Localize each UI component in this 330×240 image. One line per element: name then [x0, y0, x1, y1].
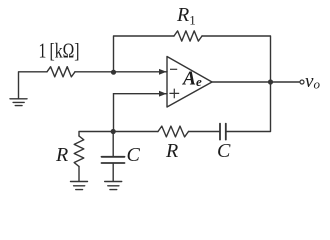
wire	[113, 94, 115, 132]
node B (RC junction)	[111, 129, 116, 134]
wire	[114, 93, 168, 95]
arrowhead (inverting input)	[159, 69, 167, 75]
svg-text:C: C	[217, 140, 231, 162]
svg-text:1 [kΩ]: 1 [kΩ]	[39, 39, 80, 63]
svg-text:C: C	[127, 144, 141, 166]
op-amp minus sign	[170, 68, 177, 70]
wire	[189, 131, 220, 133]
wire	[226, 82, 270, 132]
resistor 1 kOhm	[47, 67, 75, 77]
wire	[114, 36, 175, 72]
ground (under shunt R)	[71, 182, 88, 190]
svg-text:R: R	[55, 144, 68, 166]
node C (output node)	[268, 79, 273, 84]
op-amp plus sign	[169, 89, 179, 99]
wire	[112, 164, 114, 181]
op-amp U1	[167, 57, 212, 108]
node A (inverting input node)	[111, 70, 116, 75]
wire	[75, 71, 167, 73]
svg-text:R: R	[165, 140, 178, 162]
terminal vo	[300, 80, 304, 84]
svg-text:Ae: Ae	[181, 68, 202, 89]
capacitor C (series)	[220, 124, 226, 140]
ground (left input)	[10, 99, 27, 106]
svg-text:vo: vo	[305, 71, 320, 92]
wire	[212, 81, 271, 83]
resistor R1	[174, 31, 202, 41]
capacitor C (shunt)	[102, 157, 125, 163]
wire	[202, 36, 271, 82]
resistor R (series)	[158, 126, 189, 137]
resistor R (shunt)	[74, 136, 84, 167]
wire	[79, 132, 113, 137]
wire	[113, 131, 158, 133]
wire	[19, 72, 48, 99]
svg-text:R1: R1	[176, 4, 196, 28]
arrowhead (non-inverting input)	[159, 91, 167, 97]
wire	[78, 167, 80, 181]
wire	[112, 132, 114, 157]
ground (under shunt C)	[105, 182, 122, 190]
wire	[271, 81, 300, 83]
